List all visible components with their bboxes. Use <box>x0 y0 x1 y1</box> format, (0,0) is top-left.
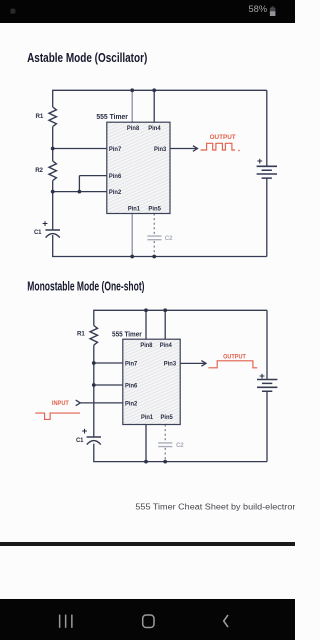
svg-text:+: + <box>257 156 263 167</box>
svg-text:+: + <box>82 426 88 437</box>
svg-text:OUTPUT: OUTPUT <box>210 134 236 141</box>
svg-text:Pin3: Pin3 <box>164 360 177 367</box>
svg-text:Pin8: Pin8 <box>140 342 152 349</box>
svg-text:555 Timer Cheat Sheet by build: 555 Timer Cheat Sheet by build-electron <box>135 503 295 512</box>
svg-text:555 Timer: 555 Timer <box>96 114 128 121</box>
svg-text:C2: C2 <box>165 235 173 242</box>
svg-text:Pin5: Pin5 <box>161 414 174 421</box>
svg-text:+: + <box>42 219 48 230</box>
svg-text:Astable Mode (Oscillator): Astable Mode (Oscillator) <box>27 51 147 65</box>
svg-text:C1: C1 <box>34 230 42 236</box>
svg-text:Pin1: Pin1 <box>141 414 153 421</box>
svg-text:C2: C2 <box>176 442 184 449</box>
svg-text:Pin4: Pin4 <box>148 125 161 132</box>
svg-text:555 Timer: 555 Timer <box>112 331 142 338</box>
svg-text:Pin6: Pin6 <box>109 173 122 180</box>
svg-text:R2: R2 <box>35 167 43 174</box>
svg-text:C1: C1 <box>76 438 84 444</box>
svg-text:Pin2: Pin2 <box>109 189 122 196</box>
svg-text:Pin6: Pin6 <box>125 382 138 389</box>
svg-text:R1: R1 <box>36 113 44 120</box>
svg-text:R1: R1 <box>77 331 85 338</box>
svg-text:Pin1: Pin1 <box>128 206 140 213</box>
svg-text:Pin8: Pin8 <box>127 125 140 132</box>
svg-text:OUTPUT: OUTPUT <box>223 353 246 360</box>
svg-text:Monostable Mode (One-shot): Monostable Mode (One-shot) <box>27 279 144 293</box>
svg-text:Pin5: Pin5 <box>148 206 161 213</box>
svg-text:Pin7: Pin7 <box>109 146 122 153</box>
svg-text:Pin4: Pin4 <box>160 342 172 349</box>
svg-text:Pin2: Pin2 <box>125 400 138 407</box>
svg-text:INPUT: INPUT <box>52 400 69 407</box>
svg-text:Pin7: Pin7 <box>125 360 138 367</box>
svg-text:Pin3: Pin3 <box>154 146 167 153</box>
